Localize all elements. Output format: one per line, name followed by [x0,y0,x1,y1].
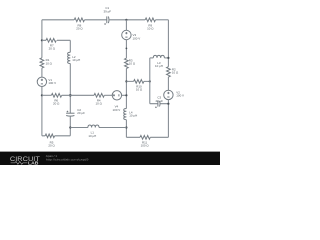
wire center vertical bottom [125,120,127,138]
wire R10 rail [126,80,149,82]
wire top rail right segment [109,19,145,21]
wire right vertical mid [167,77,169,90]
wire top rail far right segment [156,19,169,21]
inductor L1 [88,125,99,128]
wire L1 rail [70,127,126,129]
svg-text:20 Ω: 20 Ω [48,143,55,147]
wire center vertical below V3 [125,40,127,58]
capacitor C1 [106,16,108,23]
svg-text:10 Ω: 10 Ω [136,87,143,91]
svg-text:100 V: 100 V [48,81,56,85]
inductor L4 [124,109,127,120]
wire R7 rail [42,39,70,41]
voltage source V2 [164,90,173,99]
inductor L3 [150,57,154,59]
node V4 right junction [125,94,127,96]
wire L3 left vertical [149,58,151,104]
svg-text:100 V: 100 V [176,94,184,98]
wire bottom rail [126,136,168,138]
wire mid rail segment 2 [62,94,94,96]
wire left vertical upper [41,20,43,58]
resistor R4 [94,93,104,97]
wire C2 to bottom [69,116,71,136]
wire C3 rail [150,103,169,105]
voltage source V1 [37,77,46,86]
node C3 right junction [167,103,169,105]
node C2 branch junction [69,94,72,97]
wire right vertical bottom [167,100,169,138]
svg-text:10 Ω: 10 Ω [96,102,103,106]
svg-text:100 V: 100 V [113,108,121,112]
voltage source V4 [112,91,121,100]
svg-text:39 pF: 39 pF [104,9,112,13]
wire left vertical mid [41,68,43,77]
node top-center junction [125,19,127,21]
node L1 rail right junction [125,126,127,128]
resistor R8 [74,18,84,22]
svg-text:10 Ω: 10 Ω [172,71,179,75]
wire left vertical lower [41,87,43,136]
voltage source V3 [122,30,131,39]
wire L2 vertical to mid rail [69,64,71,114]
resistor R5 [45,134,54,138]
wire right vertical top [167,20,169,67]
resistor R11 [140,135,150,139]
svg-text:10 μH: 10 μH [88,134,96,138]
node below V3 [126,48,128,50]
svg-text:10 Ω: 10 Ω [129,62,136,66]
node L1 rail left junction [69,126,71,128]
node left R7 junction [41,39,43,41]
wire top rail mid segment [85,19,107,21]
svg-text:10 μH: 10 μH [72,58,80,62]
resistor R7 [46,38,56,42]
resistor R3 [125,58,129,68]
svg-text:20 Ω: 20 Ω [76,27,83,31]
node R10 right junction [149,80,151,82]
svg-text:20 Ω: 20 Ω [49,47,56,51]
svg-text:100 V: 100 V [133,36,141,40]
svg-text:100 Ω: 100 Ω [141,144,150,148]
svg-text:20 Ω: 20 Ω [53,102,60,106]
node R10 left junction [125,80,127,82]
wire top rail left segment [42,19,74,21]
resistor R2 [167,67,171,77]
resistor R6 [51,93,61,97]
footer bar [0,152,220,165]
node L3 right junction [167,57,169,59]
wire L2 vertical upper [69,40,71,52]
resistor R10 [134,80,144,84]
node left mid-rail junction [41,94,43,96]
svg-text:10 Ω: 10 Ω [46,61,53,65]
capacitor C2 [66,112,74,114]
wire mid rail segment 1 [42,94,52,96]
wire center vertical below R3 [125,69,127,109]
svg-text:10 μH: 10 μH [155,64,163,68]
wire bottom-left rail [42,135,70,137]
svg-text:LAB: LAB [28,161,38,166]
capacitor C3 [157,101,159,107]
wire center vertical top [125,20,127,30]
svg-text:10 Ω: 10 Ω [147,27,154,31]
svg-text:20 μF: 20 μF [77,111,85,115]
wire mid rail segment 3 [104,94,112,96]
resistor R9 [145,18,155,22]
svg-text:http://circuitlab.com/czqrj9: http://circuitlab.com/czqrj9 [46,158,89,162]
inductor L2 [68,52,71,63]
svg-text:10 μH: 10 μH [129,114,137,118]
svg-text:20 μF: 20 μF [156,99,164,103]
resistor R1 [40,58,44,68]
wire mid rail segment 4 [122,94,127,96]
